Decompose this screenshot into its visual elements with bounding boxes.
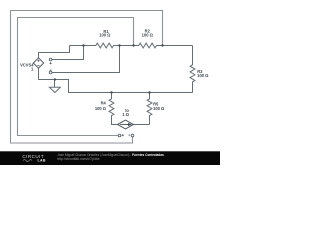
svg-text:R4: R4 [101,101,107,106]
svg-text:1 Ω: 1 Ω [122,112,129,117]
svg-text:100 Ω: 100 Ω [99,33,111,38]
svg-text:100 Ω: 100 Ω [142,32,154,37]
svg-text:100 Ω: 100 Ω [95,106,107,111]
svg-text:http://circuitlab.com/c/7p44e: http://circuitlab.com/c/7p44e [57,157,99,161]
svg-text:100 Ω: 100 Ω [153,106,165,111]
svg-text:LAB: LAB [38,159,46,163]
svg-text:100 Ω: 100 Ω [197,73,209,78]
